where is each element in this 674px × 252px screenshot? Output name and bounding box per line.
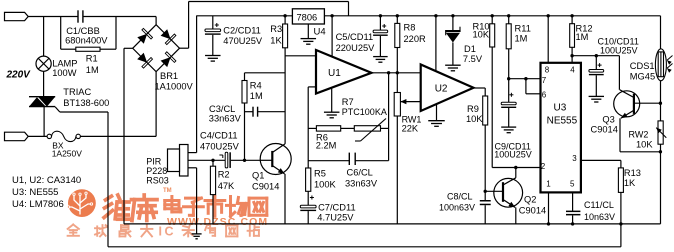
resistor R12 bbox=[570, 14, 573, 17]
wire pin8 bbox=[547, 14, 550, 17]
svg-text:R9: R9 bbox=[467, 104, 479, 114]
ground C9 bbox=[501, 126, 516, 128]
wire Q3 emitter to divider bbox=[620, 151, 660, 153]
svg-text:BT138-600: BT138-600 bbox=[63, 98, 109, 108]
resistor R9 bbox=[483, 96, 488, 125]
ground C2 bbox=[205, 55, 221, 57]
resistor R4 bbox=[244, 73, 246, 81]
svg-text:4: 4 bbox=[570, 66, 575, 75]
svg-text:U1, U2: CA3140: U1, U2: CA3140 bbox=[12, 175, 81, 186]
svg-text:47K: 47K bbox=[218, 181, 235, 191]
op-amp U2 bbox=[421, 65, 474, 112]
node feedback vertical bbox=[387, 71, 390, 74]
svg-text:1K: 1K bbox=[624, 178, 636, 188]
svg-text:R5: R5 bbox=[314, 169, 326, 179]
bridge rectifier BR1 bbox=[133, 25, 180, 72]
regulator U4 7806 bbox=[292, 9, 324, 24]
wire U1 out bbox=[372, 72, 421, 74]
svg-text:C7/CD11: C7/CD11 bbox=[318, 203, 356, 213]
wire PIR drain pin bbox=[188, 152, 197, 154]
wire top AC bbox=[28, 16, 78, 18]
capacitor C10 bbox=[595, 56, 597, 70]
svg-text:100U25V: 100U25V bbox=[600, 45, 638, 55]
wire pin1 bbox=[548, 192, 550, 224]
wire R10 to pin2 bbox=[491, 47, 493, 168]
svg-text:220R: 220R bbox=[404, 34, 427, 44]
capacitor C1 bbox=[77, 10, 79, 22]
wire bridge plus over-the-top bbox=[180, 47, 189, 49]
node A vertical (R3/U1+/Q1 collector) bbox=[284, 48, 286, 144]
svg-text:BR1: BR1 bbox=[160, 71, 178, 81]
svg-text:1M: 1M bbox=[250, 91, 263, 101]
svg-text:U4: U4 bbox=[314, 27, 326, 38]
svg-text:10n63V: 10n63V bbox=[584, 212, 615, 222]
svg-text:1: 1 bbox=[546, 180, 551, 189]
PIR sensor P228 bbox=[180, 145, 189, 177]
svg-text:2: 2 bbox=[541, 162, 546, 171]
resistor R10 bbox=[491, 14, 494, 17]
svg-text:1A250V: 1A250V bbox=[52, 149, 83, 159]
svg-text:1K: 1K bbox=[270, 36, 282, 46]
svg-text:CDS1: CDS1 bbox=[630, 61, 655, 71]
svg-text:100n63V: 100n63V bbox=[439, 203, 475, 213]
IC U3 NE555 bbox=[541, 63, 581, 193]
wire R4 top bbox=[245, 72, 286, 74]
svg-text:RW2: RW2 bbox=[629, 129, 649, 139]
svg-text:U2: U2 bbox=[435, 84, 448, 95]
svg-text:NE555: NE555 bbox=[547, 116, 578, 127]
transistor Q3 bbox=[614, 91, 640, 117]
resistor R1 bbox=[60, 17, 62, 50]
svg-text:100W: 100W bbox=[52, 68, 77, 78]
wire triac gate bbox=[55, 107, 60, 112]
wire right frame bbox=[660, 16, 662, 49]
svg-text:U3: U3 bbox=[554, 103, 567, 114]
svg-text:7806: 7806 bbox=[297, 12, 318, 22]
svg-text:P228: P228 bbox=[146, 166, 167, 176]
node U1 inverting vertical bbox=[308, 86, 316, 88]
svg-text:C5/CD11: C5/CD11 bbox=[336, 32, 374, 42]
svg-text:LAMP: LAMP bbox=[52, 59, 77, 69]
wire U1 Vcc bbox=[330, 14, 333, 17]
capacitor C4 bbox=[225, 152, 228, 168]
potentiometer RW2 10K bbox=[658, 121, 663, 144]
svg-text:C2/CD11: C2/CD11 bbox=[223, 26, 261, 36]
svg-text:C6/CL: C6/CL bbox=[347, 168, 373, 178]
svg-text:Q3: Q3 bbox=[602, 114, 614, 124]
svg-text:C9014: C9014 bbox=[252, 181, 279, 191]
svg-text:TM: TM bbox=[163, 188, 172, 194]
svg-text:C1/CBB: C1/CBB bbox=[66, 26, 100, 36]
svg-text:WWW.DZSC.COM: WWW.DZSC.COM bbox=[167, 216, 268, 228]
svg-text:RS03: RS03 bbox=[146, 176, 169, 186]
svg-text:8: 8 bbox=[545, 66, 550, 75]
triac BT138-600 bbox=[29, 96, 55, 98]
svg-text:TRIAC: TRIAC bbox=[63, 87, 91, 97]
svg-text:470U25V: 470U25V bbox=[200, 141, 240, 151]
capacitor C9 bbox=[508, 79, 510, 103]
resistor R5 bbox=[306, 168, 311, 191]
ground D1 bbox=[445, 64, 461, 66]
capacitor C7 bbox=[307, 191, 309, 205]
ground C5 bbox=[373, 56, 388, 58]
wire pin5 / C11 bbox=[572, 192, 574, 211]
svg-text:7.5V: 7.5V bbox=[463, 54, 483, 64]
capacitor C2 bbox=[212, 16, 214, 29]
svg-text:C8/CL: C8/CL bbox=[447, 192, 473, 202]
svg-text:3: 3 bbox=[572, 154, 577, 163]
ground U4 bbox=[307, 24, 309, 39]
svg-text:I: I bbox=[159, 224, 162, 238]
svg-text:1M: 1M bbox=[576, 32, 589, 42]
wire left frame to PIR drain bbox=[196, 16, 198, 153]
svg-text:33n63V: 33n63V bbox=[209, 114, 242, 124]
wire pin3 bbox=[581, 159, 621, 161]
svg-text:4.7U25V: 4.7U25V bbox=[317, 212, 354, 222]
zener D1 7.5V bbox=[451, 14, 454, 17]
capacitor C5 bbox=[379, 14, 382, 17]
svg-text:10K: 10K bbox=[466, 114, 483, 124]
node +V rail bbox=[196, 15, 292, 17]
wire PIR source pin bbox=[188, 159, 225, 161]
svg-text:R2: R2 bbox=[218, 170, 230, 180]
svg-text:100U25V: 100U25V bbox=[494, 150, 532, 160]
wire gate bottom bus bbox=[108, 246, 621, 248]
svg-text:D1: D1 bbox=[464, 44, 476, 54]
svg-text:R11: R11 bbox=[515, 24, 531, 34]
transistor Q2 bbox=[484, 190, 487, 193]
svg-text:R3: R3 bbox=[270, 24, 282, 34]
wire to U1+ bbox=[285, 55, 316, 57]
svg-text:100K: 100K bbox=[314, 179, 337, 189]
wire bridge AC2 down bbox=[155, 72, 157, 137]
wire R11 to pin7 bbox=[508, 49, 510, 79]
capacitor C3 bbox=[245, 111, 254, 113]
wire pin6 bracket bbox=[524, 77, 527, 80]
svg-text:C11/CL: C11/CL bbox=[584, 200, 614, 210]
wire PIR gnd pin bbox=[188, 167, 197, 169]
svg-text:220V: 220V bbox=[6, 69, 32, 80]
svg-text:1M: 1M bbox=[515, 34, 528, 44]
terminal tag L (220V live) bbox=[5, 12, 29, 20]
capacitor C8 bbox=[480, 200, 491, 202]
svg-text:10K: 10K bbox=[473, 30, 490, 40]
node 0V rail bbox=[124, 223, 661, 225]
photoresistor CDS1 MG45 bbox=[655, 49, 666, 81]
svg-text:1A1000V: 1A1000V bbox=[155, 81, 194, 91]
resistor R7 PTC100KA bbox=[381, 127, 389, 129]
potentiometer RW1 22K bbox=[394, 93, 400, 117]
resistor R11 bbox=[507, 14, 510, 17]
svg-text:C3/CL: C3/CL bbox=[209, 104, 235, 114]
svg-text:220U25V: 220U25V bbox=[336, 43, 376, 53]
svg-text:R7: R7 bbox=[342, 97, 354, 107]
svg-text:PTC100KA: PTC100KA bbox=[342, 107, 387, 117]
svg-text:R13: R13 bbox=[624, 168, 641, 178]
wire bridge minus to ground rail bbox=[124, 47, 133, 49]
svg-text:U3: NE555: U3: NE555 bbox=[12, 187, 58, 198]
svg-text:PIR: PIR bbox=[146, 157, 162, 167]
svg-text:Q1: Q1 bbox=[252, 170, 264, 180]
resistor R8 bbox=[396, 14, 399, 17]
svg-text:R4: R4 bbox=[250, 80, 262, 90]
resistor R3 bbox=[283, 14, 286, 17]
svg-text:7: 7 bbox=[542, 76, 547, 85]
svg-text:33n63V: 33n63V bbox=[345, 179, 378, 189]
terminal tag N bbox=[5, 132, 29, 141]
wire pin4/reset node bbox=[571, 47, 573, 63]
wire U2 Vcc bbox=[434, 14, 437, 17]
svg-text:C9014: C9014 bbox=[519, 206, 546, 216]
svg-text:C4/CD11: C4/CD11 bbox=[200, 130, 238, 140]
svg-text:MG45: MG45 bbox=[630, 72, 655, 82]
svg-text:Q2: Q2 bbox=[524, 195, 536, 205]
svg-text:1M: 1M bbox=[86, 65, 99, 75]
svg-text:2.2M: 2.2M bbox=[316, 140, 337, 150]
svg-text:5: 5 bbox=[570, 180, 575, 189]
op-amp U1 bbox=[316, 50, 372, 94]
svg-text:C9014: C9014 bbox=[591, 124, 618, 134]
svg-text:6: 6 bbox=[542, 91, 547, 100]
svg-text:10K: 10K bbox=[636, 139, 653, 149]
svg-text:22K: 22K bbox=[402, 123, 419, 133]
ground U2 bbox=[436, 104, 438, 120]
wire U2 out bbox=[474, 87, 486, 89]
resistor R6 bbox=[341, 127, 355, 129]
svg-text:U1: U1 bbox=[328, 68, 341, 79]
transistor Q1 bbox=[260, 144, 291, 175]
svg-text:R1: R1 bbox=[86, 54, 98, 64]
svg-text:C: C bbox=[165, 224, 174, 238]
svg-text:R8: R8 bbox=[404, 23, 416, 33]
fuse BX 1A250V bbox=[28, 135, 47, 137]
capacitor C11 bbox=[566, 211, 580, 213]
ground U1 bbox=[331, 88, 333, 112]
resistor R13 bbox=[618, 168, 623, 193]
svg-text:U4: LM7806: U4: LM7806 bbox=[12, 199, 64, 210]
wire PIR gnd line bbox=[196, 168, 198, 234]
resistor R2 bbox=[211, 159, 214, 162]
svg-text:680n400V: 680n400V bbox=[65, 35, 108, 45]
ground C10 bbox=[589, 95, 604, 97]
ground main bbox=[192, 233, 202, 235]
svg-text:470U25V: 470U25V bbox=[223, 36, 263, 46]
capacitor C6 bbox=[308, 160, 349, 162]
watermark dzsc bbox=[68, 189, 96, 217]
lamp 100W bbox=[43, 17, 45, 57]
